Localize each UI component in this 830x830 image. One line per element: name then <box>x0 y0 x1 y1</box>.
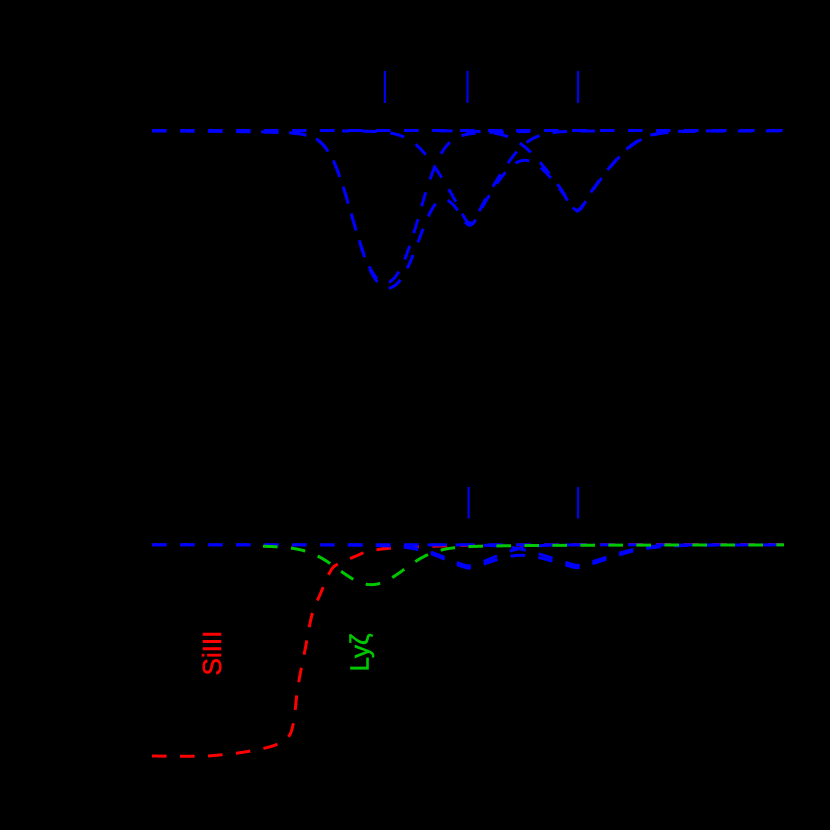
bottom panel: velocity tick of component 1 <box>468 487 470 519</box>
top panel: velocity tick of component 3 <box>577 71 579 103</box>
svg-text:SiIII: SiIII <box>197 631 227 676</box>
bottom panel: weak Lyman profile of component 2 <box>425 545 731 565</box>
top panel: Voigt profile of component 1 (deep) <box>240 131 530 282</box>
top panel: total blended absorption model <box>152 131 785 288</box>
bottom panel: total weak-blend absorption model <box>152 545 785 568</box>
top panel: continuum level dashed line <box>152 129 785 132</box>
top panel: velocity tick of component 2 <box>467 71 469 103</box>
bottom panel: continuum level dashed line <box>152 543 785 546</box>
top panel: Voigt profile of component 3 <box>438 131 716 210</box>
svg-text:Lyζ: Lyζ <box>345 634 375 672</box>
bottom panel: Ly-zeta absorption model curve <box>263 545 784 585</box>
top panel: Voigt profile of component 2 <box>342 131 598 223</box>
bottom panel: weak Lyman profile of component 1 <box>343 545 595 566</box>
top panel: velocity tick of component 1 <box>384 71 386 103</box>
bottom panel: SiIII absorption model curve <box>152 545 785 757</box>
bottom panel: velocity tick of component 2 <box>577 487 579 519</box>
